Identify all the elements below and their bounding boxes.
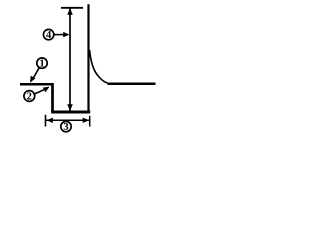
wire: left top surface (20, 83, 54, 86)
svg-text:3: 3 (63, 122, 68, 133)
dimension D3 left arrowhead (46, 118, 53, 123)
svg-text:2: 2 (27, 92, 32, 103)
label 4 leader arrow (55, 34, 66, 36)
dimension D3 right arrowhead (83, 118, 90, 123)
wire: right surface (108, 83, 156, 86)
label 2 leader arrow (34, 89, 45, 94)
label 2 circle (24, 91, 35, 102)
dimension D4 top extension tick (61, 7, 83, 9)
svg-text:4: 4 (46, 30, 52, 41)
dimension D3 line (46, 119, 89, 121)
wire: decay curve (90, 50, 109, 84)
dimension D4 top arrowhead (67, 8, 73, 15)
label 3 circle (61, 121, 71, 131)
dimension D3 right extension tick (89, 116, 91, 127)
label 4 circle (43, 29, 53, 39)
dimension D3 left extension tick (45, 115, 47, 127)
dimension D4 vertical line (69, 9, 71, 111)
wire: step sidewall (51, 83, 54, 112)
dimension D4 bottom arrowhead (67, 104, 73, 111)
wire: trench bottom (51, 111, 90, 114)
wire: tall cliff edge (87, 4, 89, 113)
label 1 leader arrow (33, 68, 39, 79)
svg-text:1: 1 (39, 59, 44, 70)
label 1 circle (37, 58, 47, 68)
